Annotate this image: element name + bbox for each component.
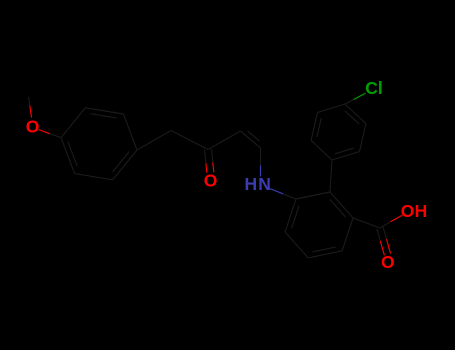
svg-text:O: O (26, 117, 40, 137)
svg-text:H: H (244, 174, 257, 194)
svg-text:H: H (415, 201, 428, 221)
svg-text:N: N (258, 174, 271, 194)
svg-text:O: O (401, 201, 415, 221)
svg-text:Cl: Cl (365, 78, 383, 98)
svg-text:O: O (381, 252, 395, 272)
svg-text:O: O (204, 171, 218, 191)
